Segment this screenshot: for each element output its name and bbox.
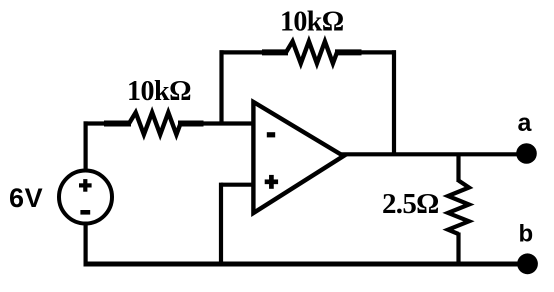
terminal a dot <box>516 143 537 164</box>
wire: feedback right vertical down to output node <box>392 50 396 154</box>
svg-text:a: a <box>518 109 533 137</box>
op-amp U1 triangle <box>253 102 343 213</box>
svg-text:10kΩ: 10kΩ <box>280 7 344 38</box>
voltage source V1 6V circle <box>59 171 112 224</box>
wire: bottom rail <box>84 262 521 267</box>
resistor R1 leads (thick) <box>104 121 131 127</box>
terminal b dot <box>517 253 538 274</box>
svg-text:b: b <box>519 221 534 248</box>
wire: load branch vertical top segment <box>456 155 460 183</box>
wire: non-inverting vertical down to bottom rail <box>219 183 223 264</box>
svg-text:10kΩ: 10kΩ <box>127 76 191 107</box>
svg-text:6V: 6V <box>9 183 43 213</box>
wire: feedback left vertical down to inverting input node <box>219 50 223 123</box>
wire: load branch vertical bottom segment <box>456 233 460 265</box>
resistor R3 2.5 Ohm zigzag <box>448 181 469 235</box>
wire: output wire from op-amp to terminal a <box>341 152 519 156</box>
source minus sign <box>80 210 90 215</box>
op-amp non-inverting input plus sign <box>265 179 278 184</box>
op-amp inverting input minus sign <box>267 132 275 137</box>
wire: non-inverting input horizontal <box>221 183 253 187</box>
resistor R2 10k feedback zigzag <box>286 41 337 63</box>
wire: from source bottom to bottom rail <box>83 222 87 266</box>
source plus sign <box>79 183 92 187</box>
wire: input wire from source top corner to op-amp inverting input <box>84 121 132 125</box>
resistor R1 10k input zigzag <box>129 113 181 135</box>
wire: feedback top rail from node above left vertical to right vertical <box>220 50 289 54</box>
resistor R2 leads (thick) <box>262 49 288 55</box>
svg-text:2.5Ω: 2.5Ω <box>382 188 439 220</box>
wire: left vertical from input wire corner down to source <box>83 121 87 172</box>
